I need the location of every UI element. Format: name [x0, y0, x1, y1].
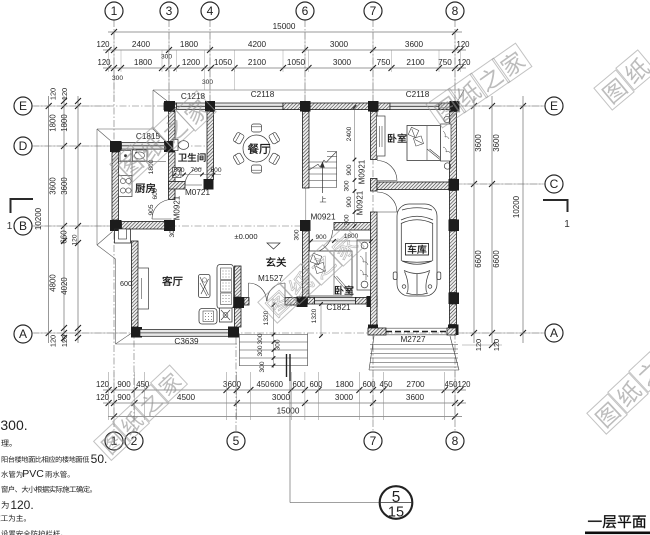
- axis line B: [32, 225, 310, 227]
- column C/axis8: [449, 179, 460, 191]
- svg-text:A: A: [19, 327, 27, 341]
- svg-text:300: 300: [161, 54, 172, 61]
- wall axis3 kitchen-bath divider: [169, 152, 176, 200]
- svg-text:120: 120: [456, 40, 470, 49]
- flue box below kitchen: [115, 229, 131, 243]
- svg-text:1200: 1200: [182, 58, 201, 67]
- column entry SW: [233, 297, 244, 308]
- svg-text:C2118: C2118: [406, 90, 430, 99]
- window C1821 bedroom2 south: [315, 298, 356, 305]
- axis bubble 7 top: [364, 2, 382, 20]
- garage door M2727 dashed opening: [386, 331, 447, 333]
- garage ramp hatch: [370, 344, 458, 346]
- svg-text:B: B: [19, 219, 27, 233]
- svg-text:8: 8: [452, 4, 459, 18]
- bottom dim line 15000: [108, 416, 462, 418]
- right extension lines: [462, 105, 545, 107]
- wall axis7 junction block: [371, 179, 378, 192]
- wall axis7 upper: [371, 112, 378, 160]
- note line3: [2, 456, 90, 463]
- svg-text:15: 15: [388, 505, 404, 521]
- svg-text:±0.000: ±0.000: [234, 232, 257, 241]
- svg-text:3: 3: [166, 4, 173, 18]
- svg-text:1800: 1800: [335, 380, 354, 389]
- porch dims: [320, 304, 322, 336]
- right dim line 2: [491, 96, 493, 343]
- svg-text:4020: 4020: [60, 277, 69, 295]
- watermark 图纸之家 top-right corner: [594, 70, 634, 110]
- svg-text:120.: 120.: [10, 498, 33, 512]
- wall bathroom south: [169, 182, 186, 190]
- column B/axis3: [164, 220, 175, 231]
- note line8: [1, 530, 62, 535]
- label 餐厅: [248, 143, 270, 154]
- svg-text:600: 600: [210, 167, 221, 174]
- kitchen sink: [133, 150, 148, 161]
- svg-text:2: 2: [131, 434, 138, 448]
- axis bubble 6 top: [296, 2, 314, 20]
- svg-text:E: E: [19, 99, 27, 113]
- column garage SE: [448, 325, 459, 336]
- car in garage: [393, 204, 441, 296]
- svg-text:3000: 3000: [335, 393, 354, 402]
- svg-text:120: 120: [96, 393, 110, 402]
- axis bubble 8 top: [446, 2, 464, 20]
- axis bubble 1 bottom: [105, 432, 123, 450]
- wall axis3 E-D (bathroom west): [169, 112, 176, 142]
- wall E: seg before axis6: [283, 103, 302, 110]
- wall living room west (axis2): [132, 241, 139, 327]
- axis bubble C right: [545, 175, 563, 193]
- bed bedroom2 bottom-middle: [309, 251, 352, 296]
- svg-text:M1527: M1527: [258, 274, 283, 283]
- axis bubble E left: [14, 97, 32, 115]
- svg-text:300: 300: [294, 229, 301, 240]
- stairs treads: [309, 161, 337, 163]
- bedroom1 side shelf: [441, 124, 452, 161]
- bed bedroom1 top-right: [407, 126, 441, 161]
- svg-text:4800: 4800: [49, 274, 58, 292]
- wall dining west (axis4): [207, 112, 214, 180]
- living room sofa: [217, 265, 234, 309]
- svg-text:1050: 1050: [287, 58, 306, 67]
- svg-text:900: 900: [346, 164, 353, 175]
- wall entry south west seg: [244, 298, 249, 306]
- section mark left: [11, 199, 34, 213]
- wall E top: seg at axis3: [164, 103, 177, 110]
- svg-text:300: 300: [344, 214, 351, 225]
- eave outline kitchen: [97, 128, 153, 130]
- wall E: axis7 seg: [377, 103, 390, 110]
- svg-text:1050: 1050: [214, 58, 233, 67]
- svg-text:10200: 10200: [512, 195, 521, 218]
- kitchen hob box: [120, 151, 131, 162]
- svg-text:3600: 3600: [223, 380, 242, 389]
- svg-text:3600: 3600: [405, 40, 424, 49]
- column E/axis3: [164, 101, 175, 112]
- svg-text:C3639: C3639: [174, 337, 199, 346]
- svg-text:120: 120: [60, 88, 69, 100]
- svg-text:8: 8: [452, 434, 459, 448]
- svg-text:6600: 6600: [474, 250, 483, 268]
- axis bubble 8 bottom: [446, 432, 464, 450]
- wall E: seg at axis8: [439, 103, 451, 110]
- label 厨房: [135, 183, 155, 193]
- axis line 6: [304, 20, 306, 103]
- label 客厅: [162, 276, 182, 286]
- door M1527 double swing: [249, 283, 267, 301]
- axis line 1: [113, 20, 115, 431]
- axis bubble E right: [545, 97, 563, 115]
- label 卧室 bedroom1: [388, 134, 406, 143]
- living room tv: [199, 275, 211, 298]
- section mark right: [543, 200, 568, 212]
- svg-text:120: 120: [97, 58, 111, 67]
- column bedroom2 SE / garage SW: [367, 296, 378, 307]
- window C1815 kitchen north: [122, 143, 165, 150]
- svg-text:600: 600: [270, 380, 284, 389]
- wall stair west (axis6): [303, 112, 310, 189]
- svg-text:300: 300: [257, 333, 264, 344]
- svg-text:120: 120: [49, 335, 58, 347]
- axis line E: [32, 105, 543, 107]
- svg-text:600: 600: [120, 279, 132, 288]
- svg-text:M2727: M2727: [400, 335, 425, 344]
- svg-text:1800: 1800: [49, 114, 58, 132]
- axis bubble A right: [545, 324, 563, 342]
- column B/axis6: [300, 220, 311, 231]
- column east mid1: [449, 220, 460, 232]
- column E/axis4: [205, 101, 215, 112]
- column bathroom SE: [204, 179, 214, 190]
- left dim line outer 10200: [48, 96, 50, 343]
- axis bubble 3 top: [160, 2, 178, 20]
- column D/axis3: [164, 141, 175, 152]
- svg-text:3600: 3600: [474, 134, 483, 152]
- label 玄关: [266, 257, 286, 267]
- svg-text:A: A: [550, 326, 558, 340]
- axis line A: [32, 332, 543, 334]
- wall garage south east seg: [447, 328, 456, 335]
- column A/axis2: [131, 327, 142, 338]
- svg-text:600: 600: [152, 188, 159, 199]
- svg-text:2700: 2700: [406, 380, 425, 389]
- axis line 8: [454, 20, 456, 431]
- bath wash basin: [173, 168, 182, 178]
- axis bubble 5 bottom: [227, 432, 245, 450]
- window C2118 bedroom: [390, 103, 439, 110]
- svg-text:1: 1: [564, 219, 570, 230]
- top dim line 15000: [108, 31, 462, 33]
- svg-text:2100: 2100: [406, 58, 425, 67]
- left extension lines: [34, 105, 110, 107]
- wall E: axis4 seg: [206, 103, 215, 110]
- svg-text:M0721: M0721: [185, 188, 210, 197]
- note line2: [1, 440, 11, 447]
- svg-text:120: 120: [457, 380, 471, 389]
- toilet: [173, 140, 178, 151]
- svg-text:M0921: M0921: [310, 213, 335, 222]
- svg-text:905: 905: [148, 204, 155, 215]
- bedroom2 dims: [311, 240, 371, 242]
- svg-text:120: 120: [96, 40, 110, 49]
- bottom extension lines: [108, 372, 110, 420]
- stairs up arrow: [322, 165, 324, 193]
- door M0921 garage swing: [377, 192, 397, 212]
- wall east (axis8) E-C: [450, 112, 457, 180]
- svg-text:15000: 15000: [273, 22, 296, 31]
- wall kitchen west (axis1): [112, 152, 119, 220]
- column bedroom2 SW: [297, 297, 308, 308]
- axis bubble 4 top: [201, 2, 219, 20]
- svg-text:660: 660: [60, 230, 69, 244]
- wall east axis8 mid2: [450, 231, 457, 293]
- axis line 4: [209, 20, 211, 103]
- living room west cabinet: [138, 268, 149, 309]
- kitchen counter side: [131, 162, 133, 177]
- wall bedroom2 south seg: [308, 298, 315, 305]
- door M0921 bedroom1 swing: [377, 161, 397, 181]
- section callout circle 5/15: [380, 486, 413, 519]
- kitchen stove: [119, 176, 133, 197]
- axis line 5: [235, 300, 237, 431]
- corridor dim line: [354, 107, 356, 226]
- label 卫生间: [178, 153, 205, 162]
- svg-text:3600: 3600: [49, 177, 58, 195]
- porch side lines: [239, 334, 241, 367]
- note line5: [2, 486, 92, 493]
- left dim line inner: [77, 96, 79, 343]
- kitchen counter: [119, 161, 167, 163]
- svg-text:2100: 2100: [248, 58, 267, 67]
- door M0721 swing: [185, 168, 202, 185]
- svg-text:2400: 2400: [132, 40, 151, 49]
- svg-text:M0921: M0921: [173, 195, 182, 220]
- wall living east (axis5) lower: [235, 308, 242, 327]
- watermark 图纸之家 bottom-right: [587, 394, 627, 434]
- stairs break line: [309, 164, 318, 170]
- svg-text:3600: 3600: [60, 177, 69, 195]
- column east mid2: [449, 293, 460, 305]
- axis line 3: [168, 20, 170, 103]
- axis bubble A left: [14, 325, 32, 343]
- left dim line mid: [63, 96, 65, 343]
- axis bubble D left: [14, 137, 32, 155]
- svg-text:6600: 6600: [492, 250, 501, 268]
- svg-text:900: 900: [315, 234, 326, 241]
- title 一层平面: [588, 515, 646, 528]
- top dim line row1: [103, 49, 466, 51]
- axis bubble 1 top: [105, 2, 123, 20]
- wall garage north: [377, 182, 450, 190]
- svg-text:D: D: [19, 139, 28, 153]
- bedroom1 wardrobe: [377, 116, 386, 156]
- door M0921 kitchen swing: [152, 200, 172, 220]
- wall bedroom2 north: [334, 223, 371, 231]
- axis bubble 7 bottom: [364, 432, 382, 450]
- bottom dim row1: [103, 389, 466, 391]
- svg-text:3000: 3000: [333, 58, 352, 67]
- svg-text:5: 5: [233, 434, 240, 448]
- axis bubble B left: [14, 217, 32, 235]
- column E/axis8: [450, 101, 460, 112]
- svg-text:7: 7: [370, 4, 377, 18]
- svg-text:450: 450: [379, 380, 393, 389]
- svg-text:120: 120: [60, 335, 69, 347]
- svg-text:750: 750: [438, 58, 452, 67]
- svg-text:6: 6: [302, 4, 309, 18]
- svg-text:300: 300: [169, 226, 176, 237]
- bedroom2 wardrobe: [357, 240, 371, 290]
- svg-text:15000: 15000: [277, 407, 300, 416]
- svg-text:700: 700: [190, 167, 201, 174]
- svg-text:120: 120: [457, 58, 471, 67]
- note line6: [1, 501, 8, 509]
- svg-text:2400: 2400: [346, 126, 353, 141]
- eave outline living room: [115, 259, 117, 344]
- wall entry south east seg: [285, 298, 297, 306]
- top dim line row2: [103, 67, 466, 69]
- wall bedroom2 west (axis6): [303, 231, 310, 297]
- label 卧室 bedroom2: [335, 286, 353, 295]
- door M0921 bedroom2 swing: [310, 230, 333, 253]
- svg-text:800: 800: [173, 167, 184, 174]
- column A/axis5: [228, 327, 239, 338]
- stairs label 上: [320, 196, 326, 202]
- svg-text:5: 5: [392, 489, 401, 506]
- watermark 图纸之家 bottom-left dims: [94, 424, 131, 461]
- wall E: axis6-axis7: [309, 103, 371, 110]
- svg-text:120: 120: [49, 88, 58, 100]
- svg-text:1800: 1800: [180, 40, 199, 49]
- svg-text:600: 600: [309, 380, 323, 389]
- svg-text:600: 600: [292, 380, 306, 389]
- axis line C: [380, 183, 543, 185]
- svg-text:PVC: PVC: [22, 468, 44, 480]
- svg-text:3600: 3600: [406, 393, 425, 402]
- svg-text:4500: 4500: [177, 393, 196, 402]
- svg-text:300: 300: [112, 75, 123, 82]
- svg-text:300: 300: [259, 361, 266, 372]
- wall east axis8 lower: [450, 304, 457, 325]
- svg-text:450: 450: [444, 380, 458, 389]
- window C3639 living south: [140, 330, 229, 337]
- svg-text:C2118: C2118: [251, 90, 275, 99]
- right dim line 1: [473, 96, 475, 343]
- svg-text:300: 300: [275, 339, 282, 350]
- svg-text:1: 1: [7, 221, 13, 232]
- porch steps: [240, 334, 308, 336]
- svg-text:C1821: C1821: [326, 303, 351, 312]
- svg-text:4: 4: [207, 4, 214, 18]
- living room armchair: [199, 309, 217, 325]
- svg-text:1800: 1800: [60, 114, 69, 132]
- column B/axis1: [110, 220, 122, 231]
- svg-text:E: E: [550, 99, 558, 113]
- svg-text:300: 300: [202, 79, 213, 86]
- wall garage south west seg: [368, 328, 386, 335]
- axis bubble 2 bottom: [125, 432, 143, 450]
- bottom dim row2: [103, 402, 466, 404]
- svg-text:1: 1: [111, 4, 118, 18]
- window C1218: [177, 103, 206, 110]
- wall kitchen south (B): [122, 222, 165, 230]
- label 车库 boxed: [406, 244, 429, 256]
- watermark 图纸之家 top-right: [426, 88, 466, 128]
- wall east axis8 mid1: [450, 191, 457, 220]
- svg-text:300: 300: [257, 345, 264, 356]
- svg-text:120: 120: [72, 234, 79, 245]
- svg-text:7: 7: [370, 434, 377, 448]
- porch dim line 1320/300s: [273, 302, 275, 368]
- svg-text:600: 600: [362, 380, 376, 389]
- living room side table plant: [220, 308, 233, 322]
- svg-text:1320: 1320: [263, 310, 270, 325]
- watermark 图纸之家 center: [258, 283, 298, 323]
- dining table: [243, 135, 270, 162]
- svg-text:900: 900: [346, 196, 353, 207]
- svg-text:M0921: M0921: [356, 190, 365, 215]
- svg-text:450: 450: [256, 380, 270, 389]
- svg-text:1320: 1320: [311, 308, 318, 323]
- svg-text:C: C: [550, 177, 559, 191]
- svg-text:300: 300: [344, 180, 351, 191]
- svg-text:300.: 300.: [0, 417, 27, 433]
- wall garage west (axis7): [371, 212, 378, 328]
- window C2118 dining: [214, 103, 283, 110]
- column garage SW: [368, 325, 378, 336]
- column D/axis1: [110, 141, 122, 152]
- wall living east (axis5) upper: [235, 266, 242, 297]
- svg-text:900: 900: [117, 380, 131, 389]
- right dim line 10200: [522, 96, 524, 343]
- section callout line: [289, 381, 291, 503]
- svg-text:3000: 3000: [272, 393, 291, 402]
- dining chairs: [252, 124, 262, 132]
- svg-text:10200: 10200: [34, 207, 43, 230]
- axis line 2: [133, 328, 135, 431]
- section cut stub at porch: [286, 354, 288, 377]
- svg-text:4200: 4200: [248, 40, 267, 49]
- column E/axis6: [300, 101, 311, 112]
- svg-text:120: 120: [96, 380, 110, 389]
- axis line 7: [372, 20, 374, 431]
- svg-text:3000: 3000: [330, 40, 349, 49]
- watermark 图纸之家 upper-left: [110, 145, 150, 185]
- svg-text:3600: 3600: [492, 134, 501, 152]
- top extension lines: [108, 50, 110, 72]
- svg-text:900: 900: [117, 393, 131, 402]
- ramp side lines: [369, 336, 374, 370]
- note line4: [1, 471, 22, 478]
- svg-text:1800: 1800: [134, 58, 153, 67]
- eave outline upper floor top: [153, 89, 464, 91]
- svg-text:M0921: M0921: [358, 159, 367, 184]
- svg-text:750: 750: [377, 58, 391, 67]
- axis line D: [32, 145, 214, 147]
- note line7: [0, 515, 26, 522]
- column E/axis7: [368, 101, 379, 112]
